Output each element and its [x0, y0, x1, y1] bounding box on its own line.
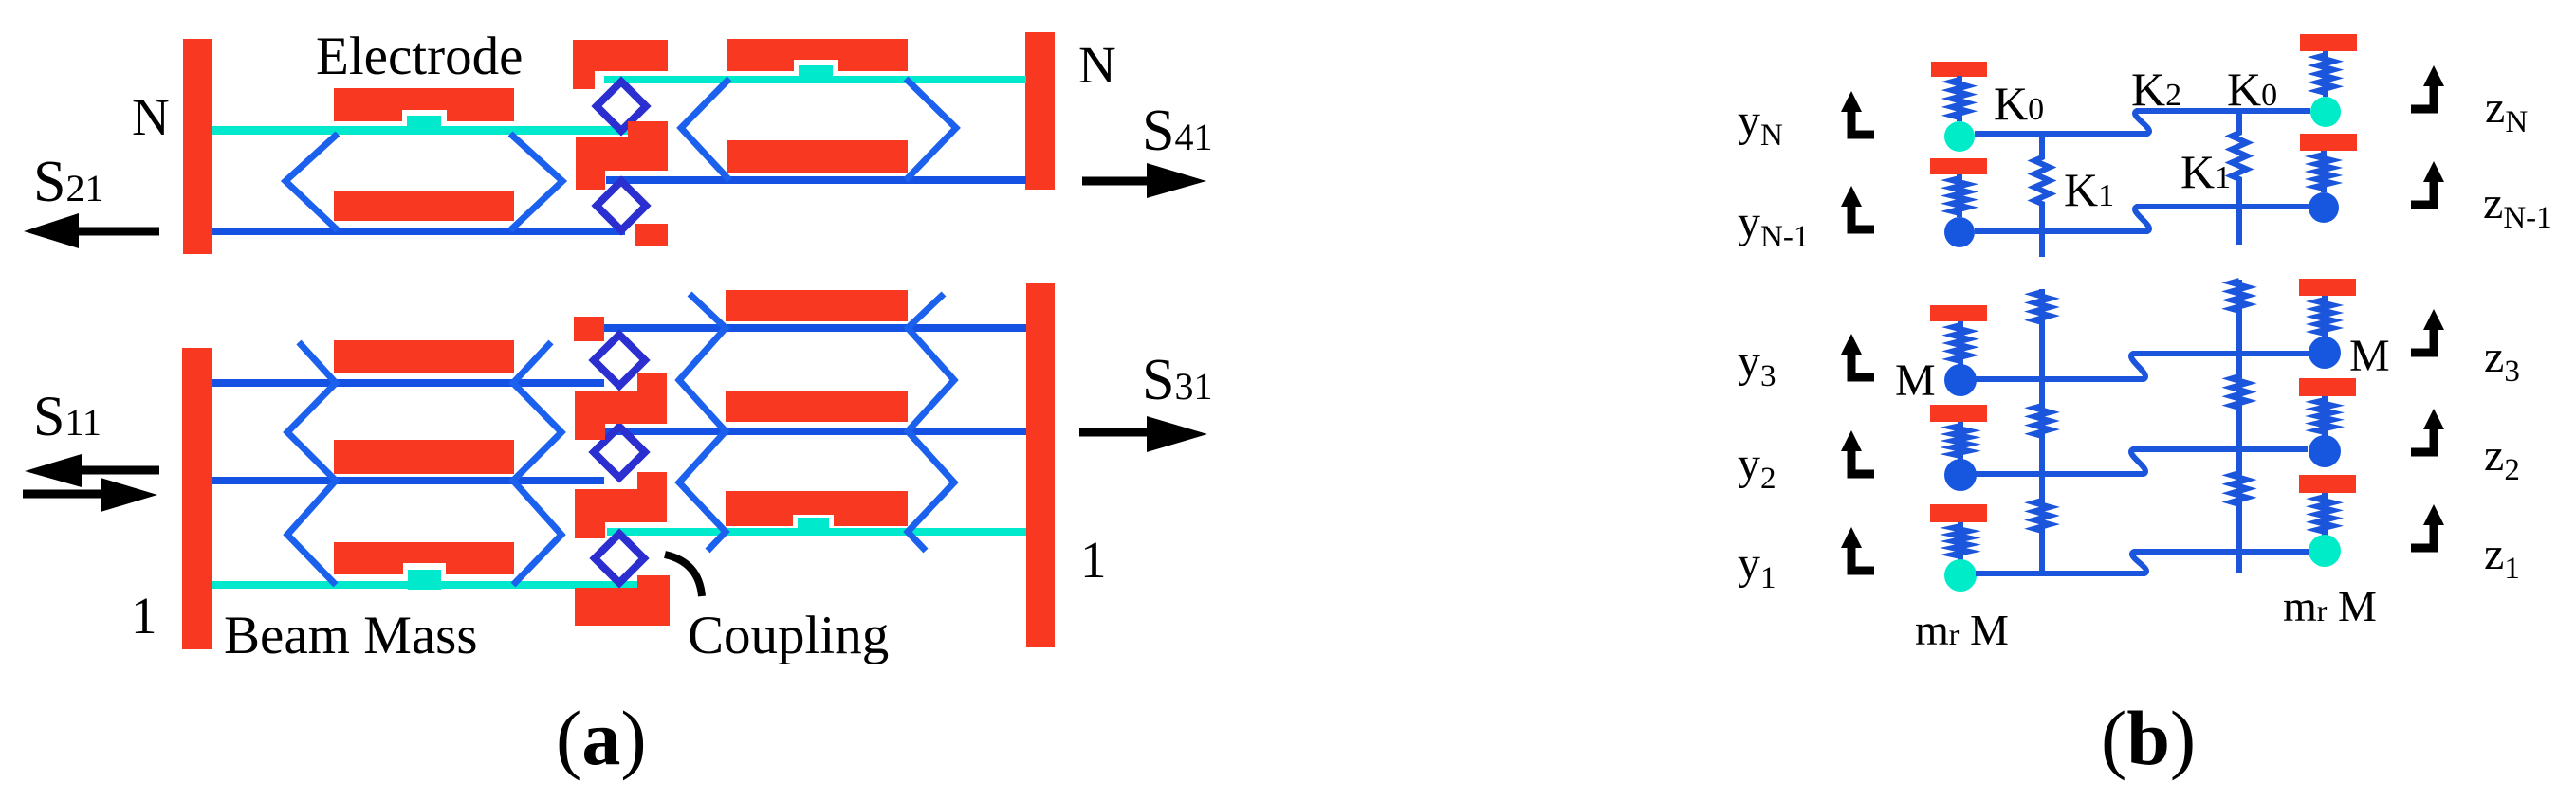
mass ball yN-1	[1944, 217, 1975, 247]
spring K1 right vertical	[2232, 111, 2247, 245]
mass ball zN	[2310, 97, 2341, 127]
electrode row2 right	[726, 391, 908, 422]
anchor z2	[2299, 378, 2356, 396]
arrow yN displacement	[1841, 91, 1862, 112]
folded spring zigzag right column, right side	[908, 294, 954, 551]
coupling block D1	[575, 373, 667, 440]
arrow S41	[1082, 177, 1151, 186]
electrode bottom-right (row N)	[727, 140, 908, 173]
folded spring zigzag left column, left side	[287, 342, 336, 585]
arrow zN-1 displacement	[2423, 161, 2444, 182]
anchor bar left (row N)	[183, 39, 212, 254]
wire: cyan beam row N right	[604, 76, 1026, 83]
mass ball zN-1	[2309, 192, 2339, 223]
coupling block D2	[575, 472, 667, 538]
wire: blue beam row N left	[212, 228, 625, 235]
coupling tab (rows)	[574, 317, 604, 341]
spring anchor-y2	[1953, 422, 1968, 460]
coupling diamond 2 (row N)	[597, 181, 646, 230]
anchor bar left (rows 1-3)	[182, 348, 212, 649]
arrow zN displacement	[2423, 65, 2444, 86]
arrow y1 displacement	[1841, 527, 1862, 548]
svg-text:mr M: mr M	[2283, 582, 2377, 630]
mass ball y2	[1944, 459, 1977, 491]
folded spring right unit (row N)	[681, 79, 956, 180]
folded spring zigzag right column, left side	[679, 294, 726, 551]
folded spring left unit (row N)	[285, 134, 562, 230]
mass ball z3	[2309, 337, 2341, 369]
arrow S11 reflected (left)	[82, 466, 159, 475]
anchor y3	[1930, 305, 1987, 321]
anchor bar right (row N)	[1025, 32, 1055, 190]
arrow z1 displacement	[2423, 504, 2444, 525]
arrow y3 displacement	[1841, 334, 1862, 355]
electrode row3 left	[334, 340, 514, 373]
coupling pointer arc	[665, 555, 702, 596]
spring anchor-yN-1	[1952, 174, 1967, 217]
electrode top-left (row N) with sense finger	[334, 88, 514, 121]
arrow yN-1 displacement	[1841, 186, 1862, 207]
spring anchor-yN	[1952, 76, 1967, 121]
anchor yN	[1931, 62, 1987, 77]
wire y3 to z3 with jog	[1976, 354, 2309, 379]
spring K1 left vertical	[2034, 134, 2050, 257]
arrow S31	[1079, 428, 1151, 437]
mass ball y3	[1944, 364, 1977, 396]
arrow y2 displacement	[1841, 430, 1862, 451]
svg-text:M: M	[2349, 331, 2390, 381]
anchor z1	[2299, 475, 2356, 493]
svg-text:Beam Mass: Beam Mass	[224, 606, 478, 665]
electrode row1 right with sense finger	[726, 491, 908, 526]
svg-text:Electrode: Electrode	[316, 27, 523, 86]
long coupling spring left vertical	[2034, 289, 2050, 573]
folded spring zigzag left column, right side	[513, 342, 561, 585]
arrow S11 incident (right)	[23, 490, 104, 499]
svg-text:N: N	[1078, 36, 1116, 94]
svg-text:mr M: mr M	[1915, 606, 2009, 654]
coupling diamond row3	[594, 335, 645, 386]
anchor z3	[2299, 279, 2356, 296]
spring anchor-y3	[1953, 321, 1968, 365]
arrow S21	[79, 228, 159, 236]
svg-text:1: 1	[131, 587, 157, 645]
spring anchor-zN-1	[2316, 151, 2331, 192]
wire yN-1 to zN-1 with jog	[1975, 207, 2309, 231]
coupling diamond 1 (row N)	[597, 82, 646, 131]
wire: blue beam row2 right	[605, 428, 1026, 435]
mass ball z2	[2309, 435, 2341, 467]
svg-text:M: M	[1895, 355, 1936, 406]
spring anchor-z3	[2317, 296, 2332, 337]
coupling block D3	[575, 575, 670, 626]
anchor zN	[2300, 34, 2357, 51]
electrode row2 left	[334, 440, 514, 474]
mass ball y1	[1944, 559, 1977, 592]
coupling diamond row2	[594, 427, 645, 478]
spring anchor-z1	[2317, 493, 2332, 536]
coupling block C (row N)	[635, 224, 668, 246]
wire: blue beam row3 left	[212, 379, 604, 387]
wire y2 to z2 with jog	[1976, 449, 2308, 474]
anchor y1	[1930, 504, 1987, 522]
anchor y2	[1930, 405, 1987, 422]
svg-text:(b): (b)	[2101, 695, 2196, 781]
electrode row3 right	[726, 290, 908, 321]
wire: cyan beam row1 left	[212, 581, 641, 589]
long coupling spring right vertical	[2232, 280, 2247, 573]
anchor yN-1	[1930, 158, 1987, 174]
coupling diamond row1	[595, 534, 644, 583]
wire: blue beam row2 left	[212, 477, 604, 484]
coupling block B (row N)	[576, 121, 668, 190]
wire: blue beam row N right	[606, 176, 1026, 184]
wire: cyan beam row1 right	[607, 528, 1026, 536]
wire y1 to z1 with jog	[1976, 552, 2309, 573]
arrow z3 displacement	[2423, 309, 2444, 330]
spring anchor-z2	[2317, 396, 2332, 436]
svg-text:(a): (a)	[556, 695, 647, 781]
mass ball yN	[1944, 121, 1975, 152]
wire yN to zN with jog	[1975, 111, 2310, 134]
svg-text:1: 1	[1080, 531, 1107, 589]
arrow z2 displacement	[2423, 409, 2444, 429]
svg-text:N: N	[132, 88, 170, 146]
spring anchor-y1	[1953, 522, 1968, 560]
mass ball z1	[2309, 535, 2341, 567]
coupling block A (row N)	[573, 40, 668, 89]
anchor bar right (rows 1-3)	[1026, 283, 1055, 647]
electrode top-right (row N) with sense finger	[727, 39, 908, 71]
electrode bottom-left (row N)	[334, 191, 514, 221]
svg-text:Coupling: Coupling	[688, 606, 889, 665]
spring anchor-zN	[2318, 51, 2333, 97]
wire: cyan beam row N left	[212, 126, 639, 135]
anchor zN-1	[2300, 134, 2357, 151]
electrode row1 left with sense finger	[334, 542, 514, 574]
wire: blue beam row3 right	[603, 324, 1026, 332]
